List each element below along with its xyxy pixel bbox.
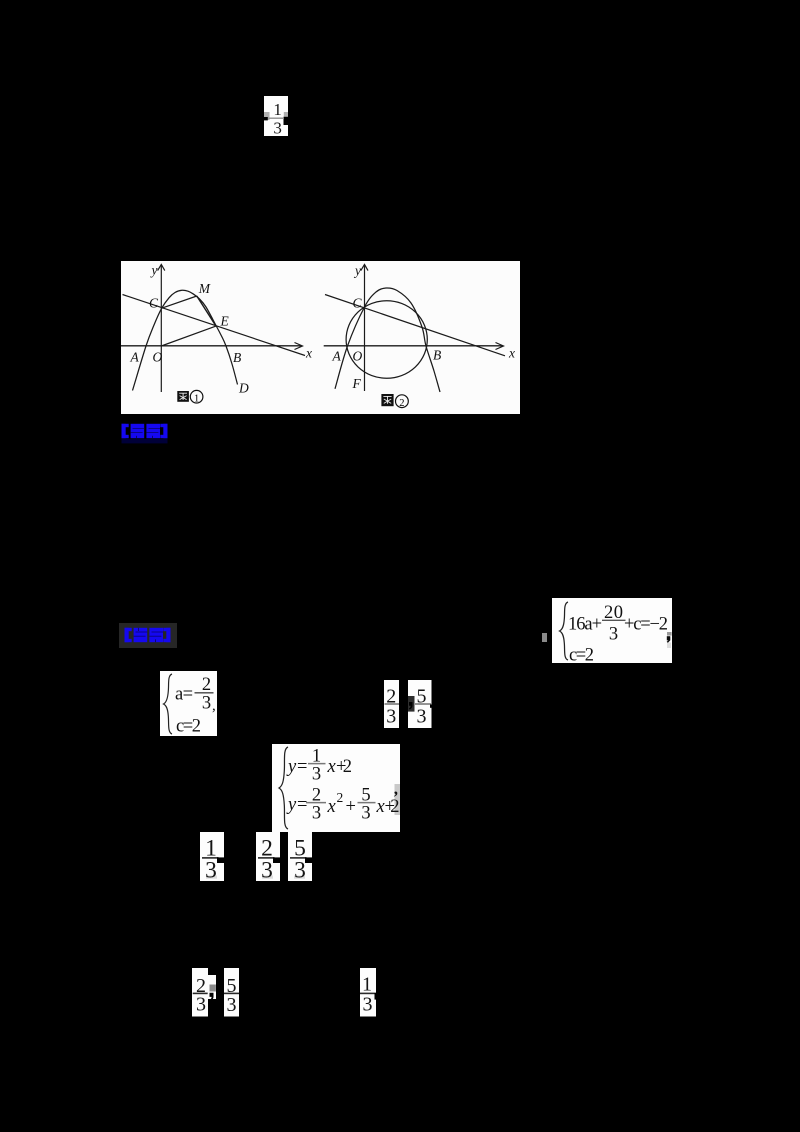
svg-text:x: x — [508, 346, 515, 361]
fig2 parabola — [335, 288, 440, 392]
svg-text:A: A — [130, 349, 140, 364]
svg-text:O: O — [353, 349, 363, 364]
svg-text:=: = — [297, 795, 307, 815]
fig1 chord C-M — [162, 296, 197, 308]
bottom fractions 2/3 , 5/3 — [191, 967, 241, 1018]
fractions 2/3 , 5/3 (mid) — [384, 680, 432, 728]
svg-text:y: y — [286, 757, 297, 777]
svg-text:a=: a= — [175, 685, 193, 705]
svg-text:x: x — [305, 346, 312, 361]
svg-text:,: , — [212, 698, 216, 714]
svg-text:D: D — [238, 381, 249, 396]
fraction row 1/3 , 2/3 , 5/3 — [200, 832, 313, 881]
svg-text:M: M — [198, 281, 211, 296]
svg-text:=: = — [297, 757, 307, 777]
svg-text:2: 2 — [337, 790, 344, 805]
svg-text:3: 3 — [196, 994, 206, 1016]
svg-text:3: 3 — [386, 705, 396, 727]
caption 图1 — [177, 390, 203, 403]
minus + fraction 2/3 — [195, 692, 214, 694]
svg-text:+: + — [346, 797, 356, 817]
svg-text:3: 3 — [205, 858, 217, 881]
fraction 1/3 (top) — [264, 96, 288, 136]
comma artifact right edge — [667, 632, 672, 636]
graph figure image — [121, 261, 520, 414]
svg-text:+c=−2: +c=−2 — [624, 615, 668, 635]
fig1 x-axis — [121, 345, 302, 347]
fig2 circle through A B C F — [346, 301, 427, 379]
svg-text:3: 3 — [227, 994, 237, 1016]
svg-text:3: 3 — [273, 118, 282, 136]
brace — [164, 674, 173, 734]
svg-text:C: C — [353, 296, 363, 311]
svg-text:B: B — [433, 348, 441, 363]
svg-text:c=2: c=2 — [176, 717, 201, 737]
brace — [560, 602, 569, 660]
fig1 y-axis — [160, 265, 162, 392]
fig1 line through C and E — [123, 295, 306, 356]
svg-text:y: y — [353, 263, 361, 278]
svg-text:2: 2 — [399, 398, 404, 409]
svg-text:3: 3 — [609, 625, 618, 645]
caption 图2 — [381, 394, 408, 408]
fig1 parabola A M B D — [133, 290, 238, 390]
svg-text:1: 1 — [273, 100, 282, 119]
fig2 x-axis — [324, 345, 503, 347]
svg-text:+2: +2 — [336, 757, 352, 777]
fig2 line through C — [325, 295, 505, 356]
svg-text:3: 3 — [261, 858, 273, 881]
svg-text:3: 3 — [363, 993, 373, 1015]
svg-text:2: 2 — [202, 675, 211, 695]
blue heading 【答案】 — [121, 423, 171, 447]
svg-text:3: 3 — [202, 694, 211, 714]
svg-text:F: F — [352, 376, 362, 391]
dark box + blue heading 【详解】 — [119, 623, 177, 648]
svg-text:x: x — [327, 797, 337, 817]
svg-text:3: 3 — [312, 764, 321, 784]
svg-text:3: 3 — [294, 858, 306, 881]
brace — [279, 747, 288, 829]
fig1 chord M-E — [197, 296, 216, 326]
svg-text:E: E — [220, 313, 230, 328]
svg-text:y: y — [286, 795, 297, 815]
big system { y=1/3x+2 ; y=-2/3x^2+5/3x+2 — [272, 744, 400, 832]
fig1 segment O-E — [161, 326, 216, 346]
equation box {16a+20/3+c=-2, c=2 — [542, 633, 547, 642]
svg-text:A: A — [332, 348, 342, 363]
svg-text:O: O — [153, 350, 163, 365]
svg-text:3: 3 — [312, 803, 321, 823]
svg-text:B: B — [233, 350, 241, 365]
svg-text:x: x — [327, 757, 337, 777]
fig2 y-axis — [364, 265, 366, 391]
svg-text:3: 3 — [417, 705, 427, 727]
svg-text:+2: +2 — [385, 797, 400, 817]
bottom fraction 1/3 — [360, 967, 377, 1018]
equation box {a=-2/3, c=2 — [160, 671, 217, 736]
svg-text:16a+: 16a+ — [568, 615, 602, 635]
svg-text:C: C — [149, 296, 159, 311]
svg-text:c=2: c=2 — [569, 646, 594, 664]
svg-text:1: 1 — [362, 973, 372, 995]
svg-text:y: y — [150, 263, 158, 278]
svg-text:1: 1 — [194, 393, 199, 404]
svg-text:3: 3 — [361, 803, 370, 823]
svg-text:,: , — [394, 779, 398, 798]
